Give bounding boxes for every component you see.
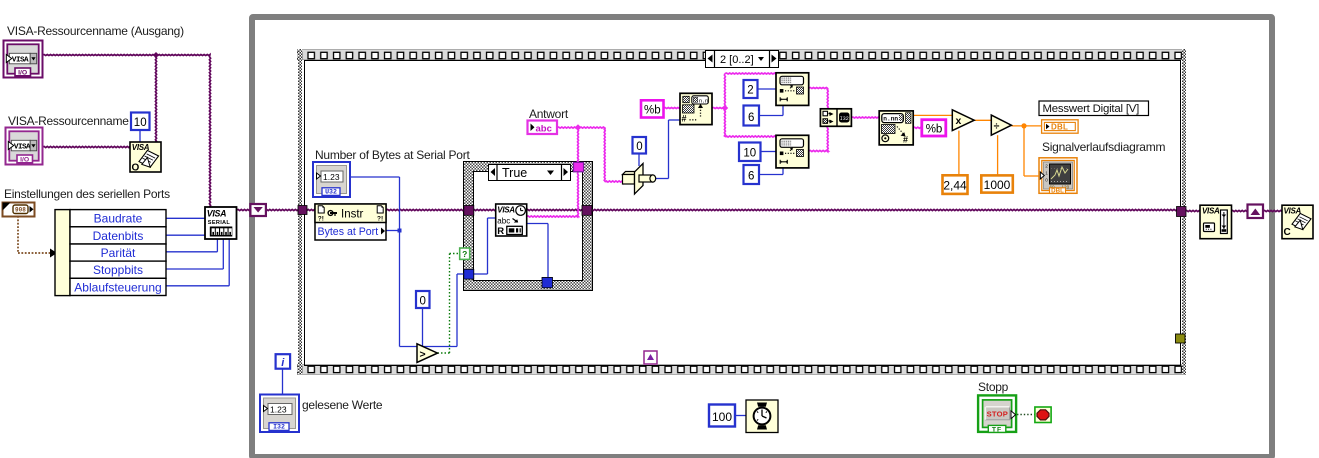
wire: constant 10 down to VISA Open xyxy=(139,130,141,143)
wire: string to Antwort indicator xyxy=(557,127,605,128)
svg-text:Parität: Parität xyxy=(101,246,136,260)
wire: join to scan value node xyxy=(851,117,879,118)
iteration terminal i xyxy=(276,354,291,369)
VISA Read node xyxy=(496,204,527,237)
case tunnel: string out (top) xyxy=(574,162,584,171)
case structure border xyxy=(464,162,592,291)
svg-text:C: C xyxy=(1284,227,1291,238)
wire: stop button to loop condition xyxy=(1017,414,1035,416)
constant 6 (second) xyxy=(744,165,760,184)
label: Einstellungen des seriellen Ports xyxy=(4,187,170,201)
svg-text:#: # xyxy=(682,114,687,124)
sequence right olive tunnel xyxy=(1176,334,1186,343)
wire: scan output to string subset nodes xyxy=(712,108,725,109)
scan from string node xyxy=(680,93,712,124)
format string constant %b 1 xyxy=(641,100,664,117)
svg-text:SERIAL: SERIAL xyxy=(208,220,231,226)
svg-text:Stoppbits: Stoppbits xyxy=(93,263,143,277)
waveform chart terminal xyxy=(1039,158,1077,195)
wire: 100 to wait timer xyxy=(735,415,746,417)
unbundle by name node (serial settings) xyxy=(55,210,166,296)
svg-text:DBL: DBL xyxy=(1051,188,1064,195)
label: VISA-Ressourcenname xyxy=(8,114,129,128)
wire: VISA read return count to bottom tunnel xyxy=(527,223,549,225)
svg-text:Baudrate: Baudrate xyxy=(94,212,143,226)
constant 10 xyxy=(131,113,150,131)
svg-text:0: 0 xyxy=(1045,178,1048,183)
wire: %b format to scan node xyxy=(664,108,681,109)
svg-text:0: 0 xyxy=(636,141,642,153)
right shift register xyxy=(1248,205,1264,219)
wire: main VISA wire through case structure xyxy=(386,209,497,210)
VISA Close node xyxy=(1282,205,1313,239)
wire: right shift register to VISA close xyxy=(1263,210,1283,211)
scan value node xyxy=(879,111,913,145)
while loop border xyxy=(249,14,1275,458)
wire: cluster constant to unbundle xyxy=(17,216,19,253)
VISA Configure Serial Port node xyxy=(205,207,237,239)
case selector label True xyxy=(488,164,571,181)
svg-text:Datenbits: Datenbits xyxy=(93,229,144,243)
Antwort string indicator xyxy=(528,121,558,135)
svg-text:2: 2 xyxy=(747,84,753,96)
wire: comparator to case selector (boolean) xyxy=(438,352,450,354)
case tunnel: VISA right xyxy=(582,206,592,216)
svg-text:1000: 1000 xyxy=(984,178,1011,192)
wire: string down to type cast xyxy=(604,128,605,182)
wires: cluster rows to VISA serial node xyxy=(166,217,205,219)
Stopp boolean control xyxy=(978,395,1016,433)
wire: VISA resource 2 to VISA Open xyxy=(43,146,131,147)
wire: type cast to scan node xyxy=(656,178,669,180)
svg-text:I32: I32 xyxy=(273,424,285,431)
svg-text:908: 908 xyxy=(15,207,26,214)
wires: subsets to join node xyxy=(809,88,828,89)
wire: case byte count tunnel to VISA read xyxy=(474,273,488,275)
svg-text:100: 100 xyxy=(712,410,732,424)
svg-text:2,44: 2,44 xyxy=(943,179,967,193)
svg-text:n.n: n.n xyxy=(699,97,708,104)
svg-text:#: # xyxy=(903,135,908,145)
type cast node (funnel) xyxy=(623,164,656,195)
wires: constants into subset node 2 xyxy=(761,151,777,153)
svg-text:O: O xyxy=(132,163,140,174)
sequence right VISA tunnel xyxy=(1177,207,1187,217)
svg-text:Bytes at Port: Bytes at Port xyxy=(318,226,379,238)
svg-text:6: 6 xyxy=(748,112,754,124)
cluster constant (serial settings) xyxy=(3,203,35,217)
sequence left VISA tunnel xyxy=(298,206,307,215)
svg-text:U32: U32 xyxy=(325,189,337,196)
svg-text:%b: %b xyxy=(644,105,661,117)
VISA flush node xyxy=(1200,205,1232,239)
wire: scan value to %b 2 xyxy=(913,127,922,128)
label: Number of Bytes at Serial Port xyxy=(315,148,470,162)
svg-text:1.23: 1.23 xyxy=(323,172,340,182)
comparator greater than 0 xyxy=(417,344,438,363)
case tunnel: return count bottom xyxy=(542,277,553,287)
svg-text:10: 10 xyxy=(743,147,756,159)
constant 2,44 xyxy=(943,175,968,194)
svg-text:x: x xyxy=(956,115,962,127)
label: Signalverlaufsdiagramm xyxy=(1042,140,1165,154)
svg-text:STOP: STOP xyxy=(987,410,1008,419)
svg-text:Instr: Instr xyxy=(341,209,364,221)
string subset node 1 xyxy=(776,73,809,106)
wire: constant 0 to type cast xyxy=(638,154,640,167)
svg-text:Ablaufsteuerung: Ablaufsteuerung xyxy=(74,280,161,294)
Messwert Digital [V] label box xyxy=(1039,101,1149,116)
label: VISA-Ressourcenname (Ausgang) xyxy=(7,24,184,38)
svg-text:0: 0 xyxy=(419,295,425,307)
svg-text:n.nn: n.nn xyxy=(883,116,898,123)
wait until next ms multiple node xyxy=(746,400,778,433)
svg-text:abc: abc xyxy=(536,123,552,134)
join/boolean-array-to-number node xyxy=(820,109,851,127)
svg-text:R: R xyxy=(497,226,504,237)
wire: 1000 to divide xyxy=(997,135,999,175)
svg-text:2: 2 xyxy=(1045,164,1048,169)
svg-text:>: > xyxy=(420,349,426,361)
left shift register xyxy=(250,204,266,216)
constant 10 (subset) xyxy=(739,143,761,162)
gelesene Werte indicator (I32) xyxy=(260,395,299,433)
wire: shift register to sequence tunnel to property node xyxy=(265,209,316,210)
svg-text:VISA: VISA xyxy=(12,57,29,65)
sequence selector label 2 [0..2] xyxy=(705,50,779,68)
property node Bytes at Port xyxy=(315,204,386,240)
case tunnel: byte count left xyxy=(464,269,474,279)
Number of Bytes at Serial Port indicator (U32) xyxy=(313,162,350,197)
wire: scan value result to multiply xyxy=(913,114,952,116)
wire: U32 indicator to vertical xyxy=(350,176,400,178)
svg-text:10: 10 xyxy=(134,117,147,129)
wire: 2,44 to multiply xyxy=(958,131,960,176)
svg-text:Messwert Digital [V]: Messwert Digital [V] xyxy=(1043,103,1140,115)
Messwert Digital DBL indicator xyxy=(1042,120,1079,133)
format string constant %b 2 xyxy=(922,120,946,136)
svg-text:abc: abc xyxy=(497,217,510,226)
VISA resource name control 2 xyxy=(6,128,43,165)
label: gelesene Werte xyxy=(302,398,382,412)
divide node xyxy=(991,115,1011,135)
svg-text:I/O: I/O xyxy=(20,156,29,163)
svg-text:VISA: VISA xyxy=(1202,207,1220,216)
svg-text:I/O: I/O xyxy=(18,69,27,76)
constant 100 xyxy=(709,405,735,427)
svg-text:1.23: 1.23 xyxy=(270,405,287,415)
constant 6 (first) xyxy=(744,106,760,126)
constant 1000 xyxy=(981,175,1013,192)
case selector terminal ? xyxy=(460,248,470,259)
constant 0 (compare) xyxy=(416,291,430,308)
string subset node 2 xyxy=(776,135,809,168)
svg-text:VISA: VISA xyxy=(497,206,515,215)
svg-text:6: 6 xyxy=(748,170,754,182)
wire: sequence tunnel to VISA flush xyxy=(1185,210,1201,211)
svg-text:?!: ?! xyxy=(318,216,324,223)
VISA resource name control (Ausgang) xyxy=(4,41,43,78)
label: Antwort xyxy=(529,107,568,121)
wires: constants into subset node 1 xyxy=(758,88,777,90)
multiply node xyxy=(952,110,974,131)
wire: main VISA wire case to sequence right tunnel xyxy=(590,209,1178,210)
svg-text:I32: I32 xyxy=(840,116,849,122)
wire: VISA flush to right shift register xyxy=(1231,210,1248,211)
sequence local up-arrow terminal xyxy=(644,351,657,364)
wire: byte count down and to comparator / case tunnel xyxy=(400,346,458,348)
sequence inner border xyxy=(304,60,1181,367)
wire: VISA resource (Ausgang) to junction and down xyxy=(43,55,211,56)
svg-text:÷: ÷ xyxy=(994,120,1000,132)
svg-text:VISA: VISA xyxy=(1284,207,1302,216)
svg-text:VISA: VISA xyxy=(14,144,31,152)
label: Stopp xyxy=(978,380,1008,394)
wire: divide result to indicator and chart xyxy=(1011,125,1041,127)
wire: VISA read string out up through tunnel xyxy=(527,216,579,217)
svg-text:DBL: DBL xyxy=(1051,122,1068,131)
svg-text:?!: ?! xyxy=(377,216,383,223)
constant 2 xyxy=(744,80,758,98)
wire: multiply to divide xyxy=(974,119,991,121)
svg-text:%b: %b xyxy=(926,123,943,135)
wire: VISA serial to left shift register xyxy=(237,209,252,210)
loop condition (stop) terminal xyxy=(1035,407,1051,423)
wire: property node output junction xyxy=(386,230,400,232)
svg-text:1: 1 xyxy=(1045,171,1048,176)
wire: constant 0 to comparator xyxy=(422,308,424,352)
case tunnel: VISA left xyxy=(464,206,474,216)
svg-text:TF: TF xyxy=(992,426,1002,433)
svg-text:?: ? xyxy=(462,249,467,259)
constant 0 (type cast) xyxy=(633,137,647,154)
VISA Open node xyxy=(130,142,161,174)
wire: i terminal to indicator xyxy=(282,368,284,394)
junction on VISA wire xyxy=(153,52,159,58)
stacked sequence structure frame xyxy=(297,49,1186,60)
svg-text:VISA: VISA xyxy=(207,209,226,219)
